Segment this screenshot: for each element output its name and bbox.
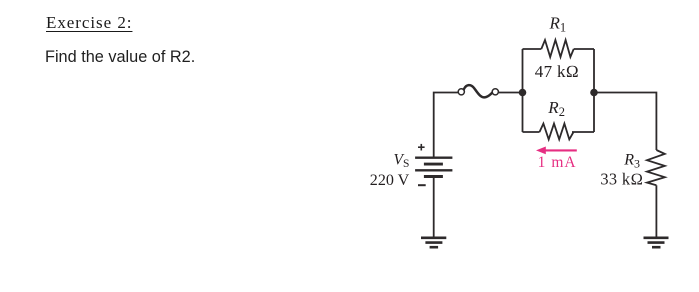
wire: bottom wire left segment <box>523 131 540 133</box>
wire: right edge of parallel box <box>593 49 595 132</box>
switch S1 blade (S-curve) <box>464 85 493 97</box>
svg-text:R2: R2 <box>547 98 565 119</box>
wire: switch to node A <box>498 92 522 94</box>
svg-text:R3: R3 <box>623 152 640 171</box>
svg-text:47 kΩ: 47 kΩ <box>535 62 579 81</box>
wire: top wire right segment <box>574 48 594 50</box>
battery polarity - <box>418 184 426 186</box>
battery polarity + <box>418 144 425 151</box>
svg-text:1 mA: 1 mA <box>538 154 577 171</box>
svg-text:220 V: 220 V <box>370 172 410 189</box>
node A (left junction dot) <box>519 89 527 97</box>
prompt text <box>45 48 195 67</box>
switch S1 right terminal <box>492 89 498 95</box>
svg-text:R1: R1 <box>549 14 567 35</box>
wire: node B to R3 branch <box>594 93 656 151</box>
node B (right junction dot) <box>590 89 598 97</box>
resistor R3 zigzag (vertical) <box>647 150 665 185</box>
heading "Exercise 2:" <box>46 13 132 33</box>
ground (under battery) <box>421 238 446 247</box>
wire: battery negative down to ground <box>433 178 435 237</box>
switch S1 (closed) left terminal <box>458 89 464 95</box>
battery Vs plates <box>415 158 452 177</box>
wire: top wire left segment <box>523 48 542 50</box>
current arrow 1 mA <box>536 147 577 155</box>
resistor R2 zigzag <box>540 124 574 140</box>
wire: battery positive terminal up to switch <box>434 93 459 158</box>
resistor R1 zigzag <box>541 40 573 57</box>
wire: left edge of parallel box <box>522 49 524 132</box>
svg-text:33 kΩ: 33 kΩ <box>600 170 643 189</box>
ground (right, under R3) <box>644 238 669 247</box>
wire: R3 to ground <box>655 185 657 237</box>
wire: bottom wire right segment <box>572 131 594 133</box>
svg-text:VS: VS <box>394 152 410 171</box>
